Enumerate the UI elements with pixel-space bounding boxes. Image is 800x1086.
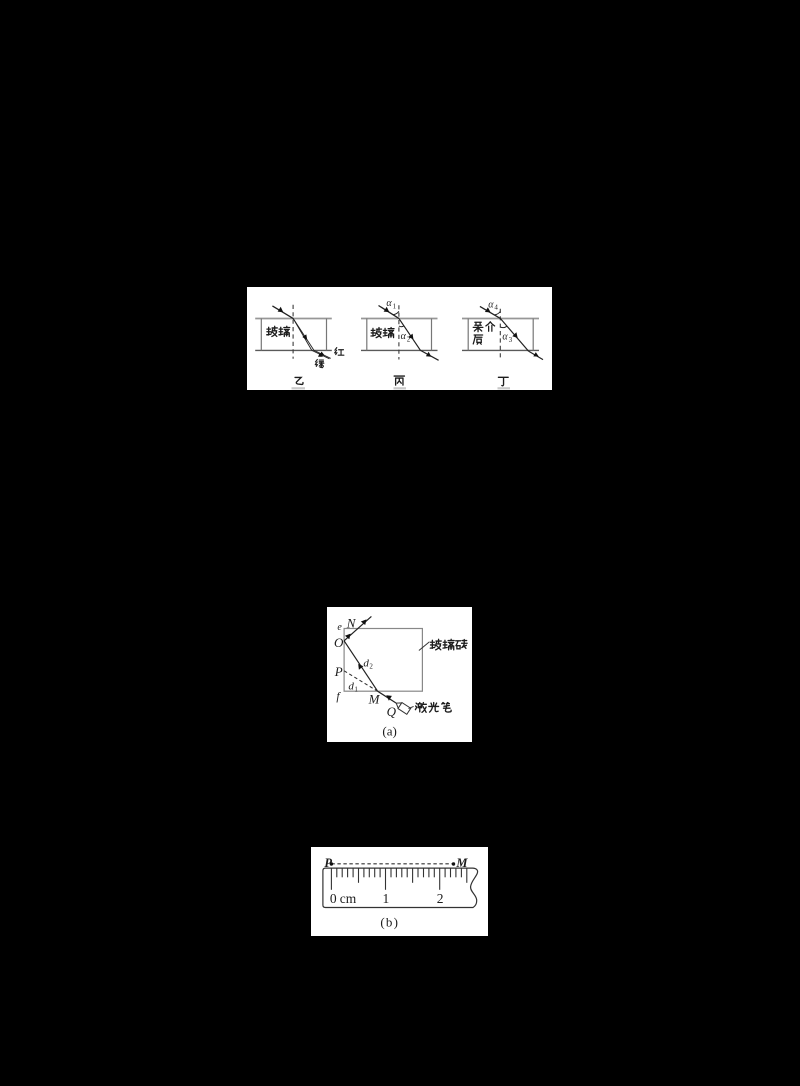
dashed normal	[499, 309, 501, 360]
label 激光笔	[415, 703, 426, 713]
dashed normal	[292, 305, 294, 359]
svg-text:M: M	[368, 691, 381, 706]
green exit ray	[312, 350, 330, 358]
svg-text:N: N	[346, 616, 357, 631]
arrowhead on QM segment pointing to M	[386, 695, 392, 700]
arrowhead near N end of ON ray	[361, 619, 367, 625]
medium block left edge	[467, 319, 469, 351]
svg-text:O: O	[334, 635, 344, 650]
slab top surface line	[462, 318, 539, 320]
svg-text:α: α	[502, 331, 508, 342]
arrowhead incident	[485, 307, 491, 312]
ruler body with torn right edge	[323, 868, 478, 907]
svg-text:f: f	[336, 691, 341, 703]
exit ray	[529, 351, 544, 360]
arrowhead green exit	[318, 353, 323, 357]
incident ray	[272, 306, 293, 319]
svg-text:2: 2	[407, 335, 411, 343]
red exit ray	[314, 350, 331, 358]
svg-text:P: P	[324, 856, 332, 870]
dashed line P to M (d1)	[344, 671, 378, 691]
label 某介	[473, 322, 483, 331]
arrowhead inside	[302, 334, 307, 340]
svg-text:P: P	[334, 664, 343, 679]
svg-text:1: 1	[383, 891, 390, 906]
angle arc alpha3	[500, 326, 507, 327]
arrowhead red exit	[320, 352, 325, 356]
svg-text:4: 4	[494, 304, 498, 312]
leader line to 激光笔 label	[409, 706, 414, 708]
glass block right edge	[326, 319, 328, 351]
ray M to O inside brick (d2)	[344, 641, 378, 691]
refracted ray inside	[500, 318, 528, 351]
label 质	[473, 335, 482, 344]
incident ray	[480, 306, 500, 318]
ray O to N emergent	[344, 616, 371, 640]
svg-text:cm: cm	[340, 891, 357, 906]
svg-text:2: 2	[369, 663, 373, 671]
arrowhead inside	[512, 332, 517, 338]
svg-text:3: 3	[509, 336, 513, 344]
svg-text:0: 0	[330, 891, 337, 906]
svg-text:1: 1	[393, 303, 397, 311]
slab bottom surface line	[255, 349, 332, 351]
point M dot	[452, 862, 455, 865]
caption 丙	[394, 376, 404, 385]
label 玻璃砖	[430, 639, 441, 649]
label 红	[335, 348, 344, 356]
caption 丁	[498, 377, 508, 385]
point P dot	[330, 862, 333, 865]
red ray inside glass	[293, 318, 314, 350]
arrowhead incident	[278, 307, 284, 312]
arrowhead exit	[426, 352, 432, 357]
glass block right edge	[431, 319, 433, 351]
label 玻璃	[267, 326, 278, 336]
svg-text:(a): (a)	[382, 724, 396, 739]
angle arc alpha1	[393, 311, 399, 314]
svg-text:M: M	[455, 856, 468, 870]
svg-text:(b): (b)	[380, 915, 399, 930]
svg-text:1: 1	[354, 686, 358, 694]
incident ray	[379, 306, 399, 319]
label 绿	[315, 359, 324, 367]
arrowhead incident	[384, 307, 390, 312]
green ray inside glass	[293, 318, 312, 350]
svg-text:2: 2	[437, 891, 444, 906]
ray M to laser pen nib	[378, 691, 397, 703]
laser pen 激光笔 body	[394, 700, 411, 714]
arrowhead near O on ON ray	[345, 634, 351, 640]
angle arc alpha4	[495, 312, 501, 315]
svg-text:Q: Q	[387, 704, 397, 719]
arrowhead exit	[533, 352, 539, 357]
refracted ray inside	[399, 318, 421, 350]
medium block right edge	[532, 319, 534, 351]
slab top surface line	[255, 318, 332, 320]
leader line to 玻璃砖 label	[419, 642, 430, 651]
glass brick rectangle 玻璃砖	[344, 629, 422, 692]
slab bottom surface line	[462, 349, 539, 351]
angle arc alpha2	[399, 325, 404, 328]
exit ray	[421, 350, 439, 360]
svg-text:α: α	[401, 331, 407, 342]
svg-text:e: e	[337, 622, 342, 633]
arrowhead on MO ray	[358, 664, 363, 670]
ruler ticks	[331, 868, 466, 890]
glass block left edge	[260, 319, 262, 351]
caption 乙	[295, 377, 303, 384]
arrowhead inside	[408, 334, 413, 340]
svg-text:α: α	[386, 298, 392, 309]
slab top surface line	[361, 318, 438, 320]
dashed normal	[398, 305, 400, 359]
slab bottom surface line	[361, 349, 438, 351]
label 玻璃	[371, 328, 382, 338]
dashed line P to M	[331, 863, 453, 865]
glass block left edge	[366, 319, 368, 351]
svg-text:α: α	[488, 299, 494, 310]
